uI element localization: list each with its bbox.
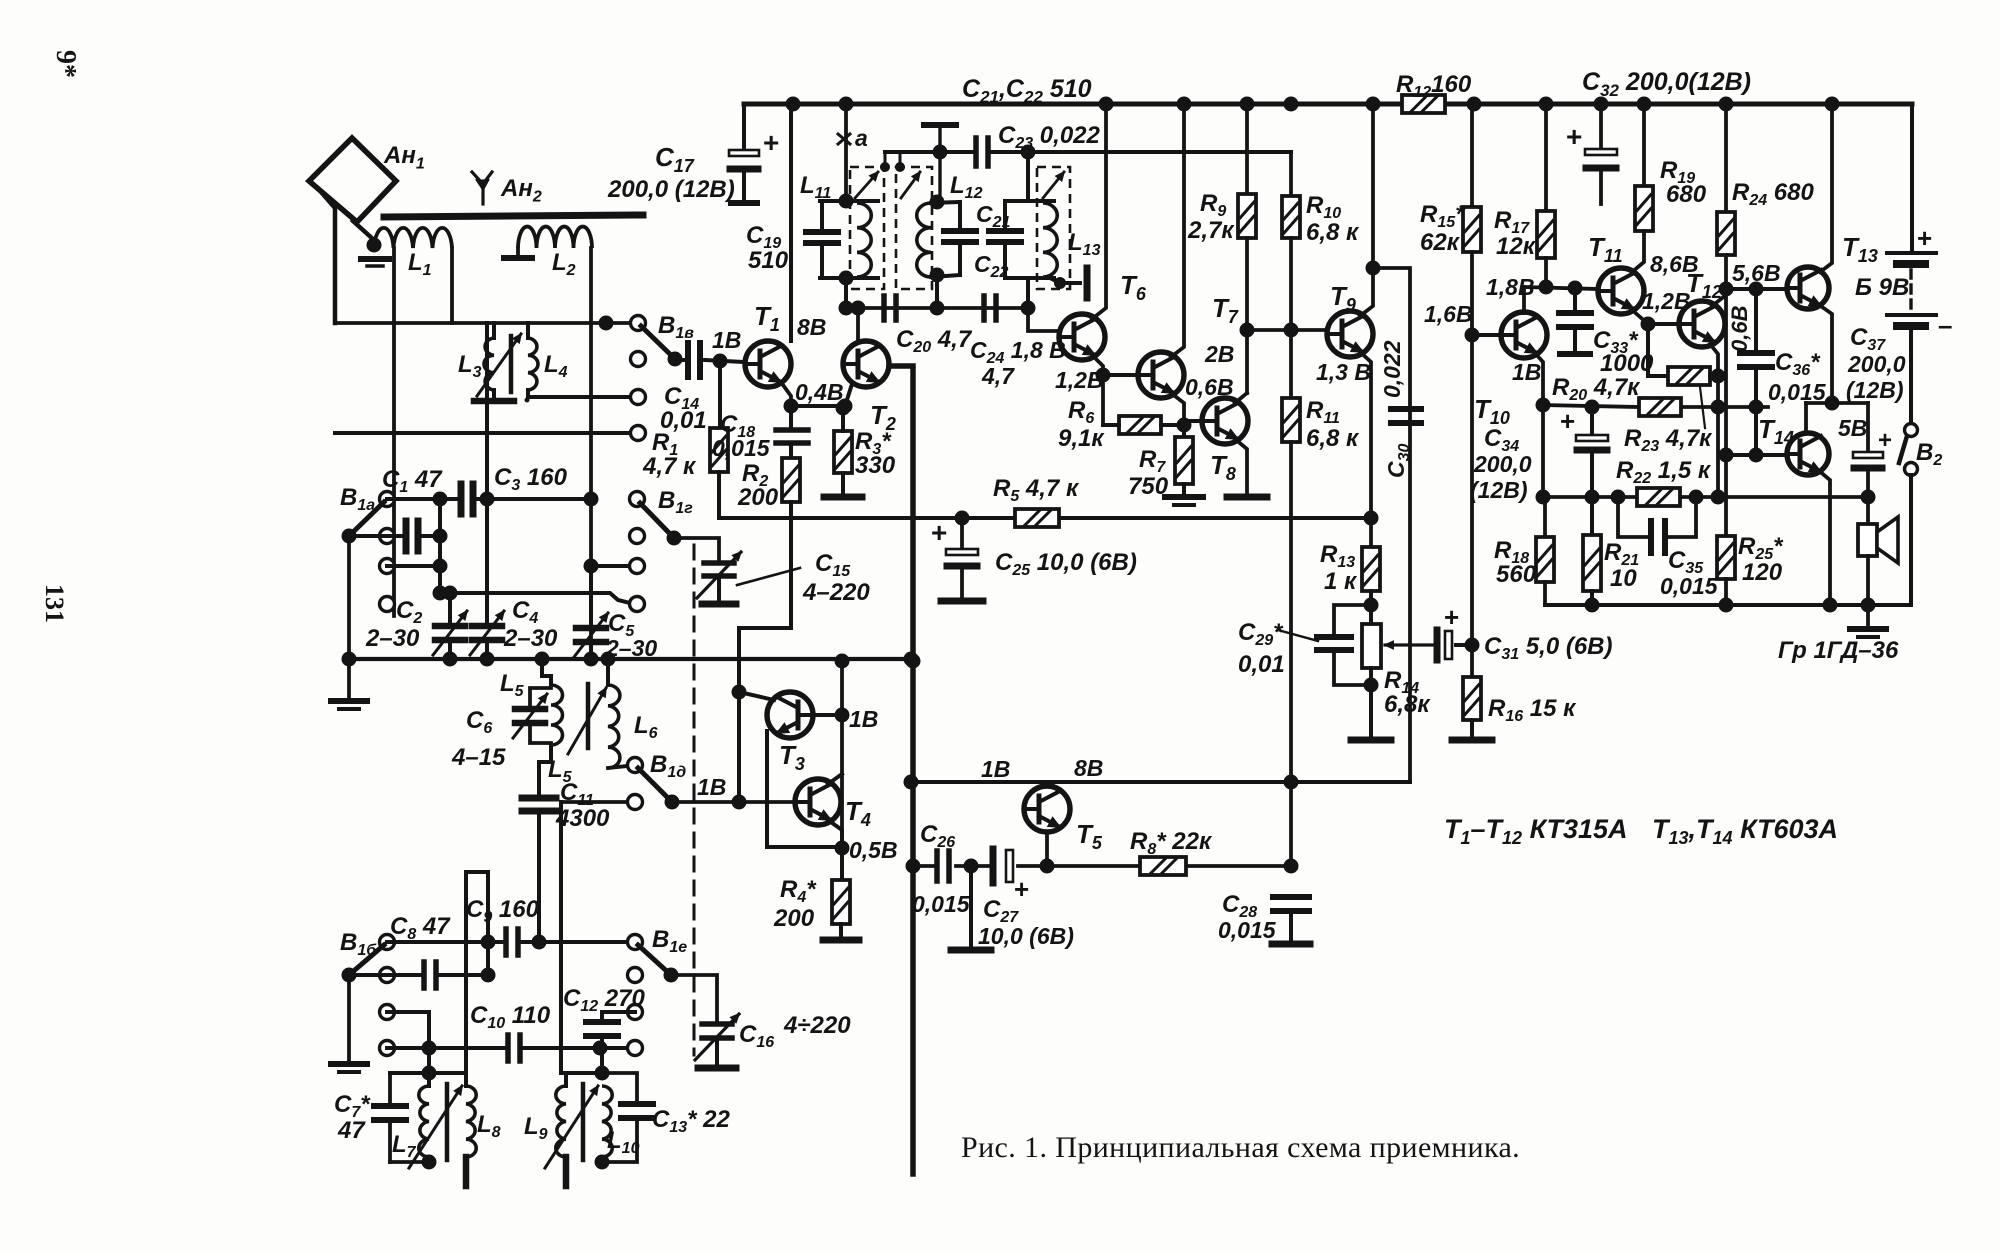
wire C10 row [387,1046,506,1050]
trimmer arrow L3 [477,334,521,396]
svg-text:2–30: 2–30 [503,625,558,652]
wire R19 bottom to T11 [1632,231,1644,272]
wire R20 right [1710,374,1718,378]
inductor L13 coil [1043,203,1057,277]
node C36 top [1749,282,1764,297]
svg-text:6,8 к: 6,8 к [1306,219,1360,246]
svg-text:С9 160: С9 160 [466,896,540,926]
wire top supply bus [744,102,1912,107]
svg-text:1 к: 1 к [1324,568,1358,595]
node tank2 bottom [930,268,945,283]
node R13 bottom [1364,598,1379,613]
node An1 tap [367,238,382,253]
wire 866 row [913,864,934,868]
resistor R8 [1140,857,1186,875]
svg-text:1,3 В: 1,3 В [1316,359,1371,385]
wire T6 base [1028,308,1059,331]
svg-text:2–30: 2–30 [365,625,420,652]
ground R4 [839,924,843,936]
transistor T8 [1202,398,1248,444]
node T14 base junctions [1719,448,1734,463]
wire T11 emitter [1631,309,1648,324]
inductor L8 [466,1086,476,1157]
transistor T9 [1327,311,1373,357]
svg-text:R23 4,7к: R23 4,7к [1624,425,1713,455]
svg-text:R8* 22к: R8* 22к [1130,828,1213,858]
potentiometer R14 [1362,624,1381,668]
wire x440 vertical [438,499,442,593]
transistor T11 [1598,268,1644,314]
resistor R9 [1238,194,1256,238]
svg-text:200: 200 [773,905,815,932]
resistor R21 [1590,497,1594,535]
node R17 bottom [1539,280,1554,295]
svg-text:С13* 22: С13* 22 [652,1106,730,1136]
node C10 x600 [593,1041,608,1056]
capacitor C13 bracket [602,1073,637,1101]
node R3 top [836,401,851,416]
svg-text:2В: 2В [1204,341,1234,367]
svg-text:4–15: 4–15 [451,744,506,771]
svg-text:0,015: 0,015 [912,891,971,917]
svg-text:12к: 12к [1496,233,1537,260]
node R14 bottom [1364,678,1379,693]
capacitor C34 electrolytic [1590,407,1594,435]
wire R10 branch [1289,152,1293,196]
node L7 bottom [422,1155,437,1170]
resistor R6 [1119,416,1161,434]
capacitor C16 variable [702,1021,732,1027]
svg-text:R12160: R12160 [1396,71,1472,101]
node B1д armature [665,795,680,810]
svg-text:С10 110: С10 110 [470,1002,551,1032]
wire T7 collector [1171,104,1184,357]
wire C18 leads [789,406,793,430]
wire T1 collector [789,104,793,341]
wire T2 collector [856,308,860,341]
wire C23 row [885,150,974,154]
node R8 right [1284,859,1299,874]
wire T4 base row [672,800,795,804]
capacitor C15 variable [704,560,734,566]
wire R5 row [719,516,1015,520]
capacitor C32 electrolytic [1599,104,1603,149]
svg-text:4÷220: 4÷220 [783,1012,851,1039]
node R20 right [1711,369,1726,384]
tank3 bottom wire [1005,276,1054,280]
wire T7 base [1103,373,1137,377]
switch B1г contacts [630,492,645,507]
node R10 row [1284,323,1299,338]
wire R10-R11 link [1289,238,1293,398]
transistor T10 [1501,312,1547,358]
wire x842 vertical [840,661,844,848]
transistor T13 [1787,267,1829,309]
svg-text:a: a [855,125,868,151]
ground B1а branch [347,659,351,697]
svg-text:10: 10 [1610,565,1637,592]
wire L7 top row [390,1071,466,1075]
wire R2 bottom to T3T4 [739,502,791,802]
svg-text:4,7: 4,7 [981,363,1015,389]
ground B1б [331,1061,367,1067]
node C34 top [1585,400,1600,415]
wire T9 base row [1247,328,1327,332]
core L7-L8 [445,1084,450,1160]
ground R3 [824,494,862,501]
svg-text:R22 1,5 к: R22 1,5 к [1616,457,1712,487]
node C20 row left [839,301,854,316]
wire x487 link [485,323,489,623]
svg-text:+: + [1917,223,1932,253]
node 782 junctions [904,775,919,790]
wire L7 bottom row [390,1160,429,1164]
node L10 bottom [595,1155,610,1170]
node x429 C10 [422,1041,437,1056]
ground An1 tap [361,256,389,262]
capacitor C14 [685,343,691,377]
capacitor C8a row2 [403,521,410,551]
svg-text:+: + [1444,602,1459,632]
wire B2 down [1909,475,1913,605]
wire T4 collector [828,774,842,784]
wire L1 right lead [450,248,454,323]
svg-text:8В: 8В [797,314,826,340]
svg-text:200,0 (12В): 200,0 (12В) [607,176,735,203]
node T1 emitter [784,399,799,414]
wire tank3 bottom link [1026,278,1030,308]
switch B2 contact bottom [1905,463,1918,476]
svg-text:9,1к: 9,1к [1058,425,1105,452]
wire T14 emitter [1818,470,1830,605]
svg-text:R16 15 к: R16 15 к [1488,695,1577,725]
core arrow [568,688,606,754]
wire R25 bottom [1724,579,1728,605]
wire T8 emitter [1235,439,1247,492]
node row3 L2 [584,559,599,574]
wire An1 tail to ground tap [353,221,374,240]
ground speaker [1866,605,1870,626]
tank2 top wire [931,202,960,203]
node C9 row left [481,935,496,950]
node T2 collector [851,301,866,316]
svg-text:1000: 1000 [1600,350,1654,377]
node T13 emitter [1825,396,1840,411]
trimmer C2 [448,593,452,623]
tank1 top wire [820,199,878,203]
wire R1 bottom [717,472,721,518]
wire tank1 feed [844,104,848,201]
wire C27 ground stem [969,866,973,946]
node R6 right [1177,418,1192,433]
svg-text:Гр 1ГД–36: Гр 1ГД–36 [1778,637,1899,664]
svg-text:560: 560 [1496,561,1537,588]
wire T4 emitter [828,820,842,848]
capacitor C23 [973,138,979,166]
resistor R20 [1668,367,1710,385]
svg-text:131: 131 [40,584,69,623]
wire T2 emitter to long vertical [889,366,913,1174]
wire T10 emitter [1534,352,1543,497]
switch B2 lever [1899,436,1907,463]
svg-text:680: 680 [1666,181,1707,208]
node B1в armature [668,352,683,367]
transistor T14 [1787,433,1829,475]
svg-text:1,6В: 1,6В [1424,301,1473,327]
tank1 bottom wire [820,276,878,280]
wire B1г to C15 [674,538,719,560]
node row3 x440 [433,559,448,574]
node B1е armature [664,968,679,983]
resistor R7 [1182,425,1186,437]
node B1г armature [667,531,682,546]
svg-text:R5 4,7 к: R5 4,7 к [993,475,1080,505]
ground C16 [698,1065,736,1072]
wire R25 branch [1724,455,1728,536]
resistor R5 [1015,509,1059,527]
wire R24 branch [1724,104,1728,212]
inductor L12 coil [917,203,931,277]
svg-text:1В: 1В [697,774,726,800]
wire R18 bottom [1543,582,1547,605]
wire R23 row [1543,405,1639,407]
svg-text:200,0: 200,0 [1847,351,1906,377]
wire L8 top link [466,872,488,1086]
svg-text:+: + [1014,874,1029,904]
wire C20 row [846,306,1028,310]
capacitor C10 [505,1035,511,1061]
antenna An1 diamond [309,138,396,222]
wire An1 down-lead [322,193,335,323]
node tank1 bottom [839,271,854,286]
svg-text:+: + [763,127,779,158]
dashed box trimmer 2 [896,167,932,289]
capacitor C12 [602,1010,635,1014]
node L7 top [422,1066,437,1081]
node x842 top [835,654,850,669]
ground R16 [1452,737,1492,744]
transistor T2 [843,341,889,387]
battery Б 9В [1887,251,1936,255]
wire C36 bottom [1754,407,1758,455]
resistor R13 [1362,547,1380,591]
wire T13 base [1726,287,1786,291]
switch B1д contacts [628,758,643,773]
node tank2 top [930,195,945,210]
resistor R25 [1717,536,1735,579]
wire common row 659 [349,657,911,661]
wire R16 ground [1470,720,1474,736]
svg-text:4300: 4300 [555,805,610,832]
capacitor C29 bracket [1334,605,1371,633]
mark a [838,134,850,144]
ground tank3 tap [1050,278,1080,283]
wire row3 right [591,564,637,568]
inductor L2 [518,227,592,248]
ground T8 [1227,494,1267,501]
ground R7 [1182,484,1186,494]
wire battery to B2 [1909,330,1913,423]
node R23 x1722 [1711,400,1726,415]
resistor R19 [1635,186,1653,231]
capacitor C7 bracket [388,1073,392,1103]
capacitor C35 bracket [1618,497,1648,537]
wire R1 vertical [718,361,722,428]
wire tank1 to C20 row [844,278,848,308]
svg-text:С8 47: С8 47 [390,913,451,943]
pointer C29 [1278,630,1318,641]
transistor T3 [767,692,813,738]
ground top inverted [924,122,956,128]
tank2 bottom wire [931,275,960,277]
wire L2 left lead to ground [516,248,520,254]
wire T11 base row [1524,287,1598,289]
switch B1г lever [640,503,674,538]
wire T12 base [1648,322,1680,326]
node trimmer tops [880,162,890,172]
switch B1б lever [349,945,384,975]
inductor L6 [608,685,620,768]
inductor L4 [528,338,538,390]
svg-text:6,8к: 6,8к [1384,691,1431,718]
capacitor C9 [503,929,509,955]
node row4 left [433,586,448,601]
tank3 top wire [1005,199,1054,203]
transistor T7 [1138,352,1184,398]
wire row2 cap [349,534,404,538]
wire T12 collector [1712,295,1726,306]
wire trimmer top stems [884,152,887,167]
wire L4 top [526,323,530,338]
svg-text:5,6В: 5,6В [1732,260,1781,286]
wire R15 branch [1470,104,1474,207]
wire x429 down [427,1012,431,1086]
node R5 right end [1364,511,1379,526]
resistor R4 [840,848,844,880]
wire T8 base [1184,419,1202,423]
capacitor C22 tank3 [1003,201,1007,231]
capacitor C30 [1391,406,1421,412]
trimmer arrow tank1 [855,172,878,198]
wire R11 bottom long [1289,442,1293,866]
dashed box L13 [1037,167,1070,289]
svg-text:330: 330 [855,452,896,479]
capacitor C24 [981,296,987,320]
wire L3 top [492,323,496,338]
wire T12 emitter [1710,344,1718,497]
inductor L3 [484,338,494,390]
ground L2 [504,255,532,261]
wire L1 tap lead [392,248,396,616]
wire C1 right [475,497,591,501]
wire T13 emitter [1818,304,1832,403]
wire R20 branch [1648,324,1668,376]
wire T1-T2 link [791,404,845,408]
wire row2 C8 [349,973,420,977]
wire T13 collector [1820,104,1832,272]
wire row3 stub [387,564,440,568]
transistor T6 [1059,314,1105,360]
wire T6 collector [1092,104,1106,319]
svg-text:Рис. 1. Принципиальная схем: Рис. 1. Принципиальная схема приемника. [961,1131,1520,1164]
switch B1е lever [638,945,671,975]
inductor L10 [602,1086,612,1157]
wire T3 base down [767,731,842,847]
switch B1е contacts [628,935,643,950]
trimmer C5 [589,566,593,625]
ground C27 [951,947,991,954]
core arrow L9L10 [545,1086,598,1168]
switch B1в lever [641,326,675,359]
transistor T4 [795,779,841,825]
node C27 ground tap [964,859,979,874]
wire T10 base [1472,333,1501,337]
capacitor C28 [1273,894,1309,900]
resistor R2 [789,443,793,458]
wire C1 row [387,497,459,501]
node C2 top [443,586,458,601]
wire x488 link [486,872,490,975]
trimmer C6 bracket [530,688,551,705]
svg-text:+: + [1560,406,1575,436]
wire row3 [387,1010,429,1014]
wire T9 collector [1360,104,1373,316]
transistor T5 [1024,786,1070,832]
resistor R3 [834,431,852,473]
ferrite rod bar An2 [384,215,643,217]
wire C10 right [522,1046,635,1050]
svg-text:0,6В: 0,6В [1727,305,1752,352]
wire switch row4 [335,431,638,435]
inductor L11 coil [857,203,871,277]
node R9 row [1240,323,1255,338]
svg-text:0,4В: 0,4В [795,379,844,405]
wire 782 row [911,780,1410,784]
wire bus to battery [1910,104,1914,250]
svg-text:1В: 1В [1512,359,1541,385]
wire C9 right [520,940,635,944]
wire T7 emitter [1171,393,1184,425]
wire T6 emitter [1092,355,1103,425]
node ground stem on C23 row [933,145,948,160]
node T12 base [1641,317,1656,332]
svg-text:1В: 1В [849,706,878,732]
capacitor C21 [958,202,962,231]
wire C16 bottom [715,1038,719,1064]
capacitor C37 electrolytic [1866,403,1870,452]
node T5 emitter [1040,859,1055,874]
wire T9 emitter [1360,352,1371,518]
wire R17 bottom [1544,258,1548,287]
switch B1а contacts [380,492,395,507]
resistor R17 [1537,211,1555,258]
wire R21 bottom [1590,591,1594,605]
svg-text:0,015: 0,015 [1660,573,1719,599]
capacitor C1 [458,484,465,514]
core L9-L10 [581,1084,586,1160]
resistor R23 [1639,398,1681,416]
resistor R22 [1637,488,1680,506]
wire T8 collector [1235,393,1247,403]
wire L5 top [542,659,551,685]
wire T14 base row [1726,453,1786,457]
svg-text:+: + [1878,427,1892,454]
ground C15 [702,601,736,608]
ground C28 [1272,941,1310,948]
node R23 right [1749,400,1764,415]
inductor L1 [374,228,452,248]
capacitor C31 electrolytic [1434,630,1441,660]
